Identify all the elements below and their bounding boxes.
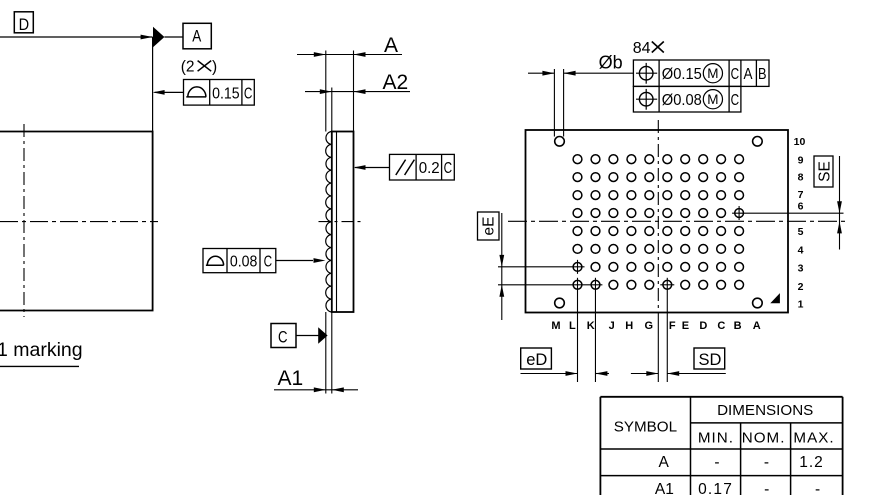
eE label box (rotated) <box>478 212 500 240</box>
svg-text:C: C <box>731 92 740 109</box>
SE label box (rotated) <box>814 156 833 187</box>
extension line (body right) <box>353 51 355 132</box>
svg-text:0.15: 0.15 <box>212 85 240 102</box>
modifier M circle row1 <box>703 64 722 83</box>
feature control frame: profile 0.08 C <box>203 249 276 273</box>
vertical centerline <box>23 124 25 317</box>
SE dimension line <box>839 156 841 250</box>
svg-text:84: 84 <box>633 40 651 57</box>
package outline (plan view, cropped) <box>0 132 153 311</box>
eD label box <box>521 348 552 369</box>
svg-text:SYMBOL: SYMBOL <box>614 418 677 435</box>
ball grid rows 2-9 cols B-L <box>573 155 743 289</box>
svg-text:Øb: Øb <box>599 53 623 73</box>
svg-text:E: E <box>682 320 689 332</box>
svg-text:0.08: 0.08 <box>230 253 258 270</box>
svg-text:DIMENSIONS: DIMENSIONS <box>717 402 813 419</box>
svg-text:H: H <box>625 320 633 332</box>
parallelism symbol // <box>396 160 406 175</box>
svg-text:G: G <box>645 320 654 332</box>
svg-text:): ) <box>212 58 217 75</box>
svg-text:1 marking: 1 marking <box>0 339 83 361</box>
dimension A2 line <box>305 91 410 93</box>
modifier M circle row2 <box>703 90 722 109</box>
solder balls (side profile scallops) <box>326 132 332 313</box>
svg-text:3: 3 <box>798 263 804 275</box>
svg-text:A2: A2 <box>383 71 409 94</box>
ball diameter extension lines <box>553 69 555 137</box>
svg-text:9: 9 <box>798 154 804 166</box>
connector to datum A box <box>164 36 183 38</box>
leader from ball B6 to SE dimension <box>732 212 843 214</box>
leader line from D to datum A edge <box>0 36 153 38</box>
profile-of-surface symbol <box>206 264 224 266</box>
eE dimension line <box>501 213 503 320</box>
side view body <box>332 132 354 313</box>
svg-text:eE: eE <box>481 217 498 236</box>
svg-text:5: 5 <box>798 226 804 238</box>
svg-text:C: C <box>244 85 253 102</box>
datum box A <box>183 23 211 49</box>
svg-text:-: - <box>764 481 769 495</box>
FCF row2: position dia 0.08 M | C <box>633 86 741 112</box>
svg-text:D: D <box>19 15 30 34</box>
svg-text:Ø0.08: Ø0.08 <box>662 92 702 109</box>
eD dimension line <box>521 373 578 375</box>
position symbol row1 <box>639 66 653 80</box>
svg-text:K: K <box>587 320 595 332</box>
leader arrow to ball tips line <box>276 260 313 262</box>
svg-text:C: C <box>264 253 273 270</box>
corner ball M10 <box>555 137 565 147</box>
leader to datum triangle C <box>296 335 319 337</box>
datum A feature edge line <box>152 37 154 132</box>
column letter labels <box>551 320 760 332</box>
svg-text:C: C <box>278 328 288 347</box>
vertical centerline <box>657 120 659 313</box>
svg-text:SD: SD <box>699 351 722 369</box>
svg-text:M: M <box>707 92 718 107</box>
svg-text:7: 7 <box>798 189 804 201</box>
svg-text:MIN.: MIN. <box>698 430 734 447</box>
feature control frame: profile 0.15 C <box>184 80 255 106</box>
datum box D <box>14 12 33 33</box>
svg-text:(2: (2 <box>181 58 195 75</box>
corner ball A1 <box>753 298 763 308</box>
svg-text:4: 4 <box>798 245 804 257</box>
horizontal centerline <box>508 220 845 222</box>
corner ball M1 <box>555 298 565 308</box>
extension line below ball K2 <box>594 278 596 382</box>
SD dimension line <box>631 373 658 375</box>
svg-text:A: A <box>753 320 761 332</box>
svg-text:A: A <box>659 454 670 471</box>
dimension line right part / leader to FCF <box>564 72 634 74</box>
dimension A line <box>297 54 402 56</box>
svg-text:A: A <box>192 27 202 46</box>
svg-text:SE: SE <box>816 161 833 182</box>
svg-text:M: M <box>551 320 560 332</box>
feature control frame: parallelism 0.2 C <box>390 154 455 180</box>
datum feature triangle A (filled) <box>153 27 164 47</box>
svg-text:-: - <box>815 481 820 495</box>
profile-of-surface symbol <box>186 96 206 98</box>
index ball target crosses <box>577 260 579 274</box>
svg-text:8: 8 <box>798 171 804 183</box>
svg-text:C: C <box>444 160 453 177</box>
svg-text:L: L <box>569 320 576 332</box>
svg-text:C: C <box>717 320 725 332</box>
mold cap line <box>336 132 338 313</box>
svg-text:D: D <box>699 320 707 332</box>
svg-text:10: 10 <box>794 136 806 148</box>
svg-text:B: B <box>734 320 742 332</box>
svg-text:2: 2 <box>798 281 804 293</box>
svg-text:J: J <box>609 320 615 332</box>
FCF row1: position dia 0.15 M | C | A | B <box>633 60 769 86</box>
position symbol row2 <box>639 92 653 106</box>
dimensions table <box>600 396 842 398</box>
vertical centerline extension below <box>657 313 659 382</box>
svg-text:Ø0.15: Ø0.15 <box>662 66 702 83</box>
svg-text:F: F <box>669 320 676 332</box>
extension line (ball tips) <box>325 51 327 132</box>
svg-text:-: - <box>764 454 769 471</box>
side view centerline <box>319 221 362 223</box>
svg-text:MAX.: MAX. <box>793 430 834 447</box>
svg-text:NOM.: NOM. <box>742 430 786 447</box>
svg-text:0.2: 0.2 <box>419 160 440 177</box>
svg-text:0.17: 0.17 <box>698 481 733 495</box>
svg-text:6: 6 <box>798 201 804 213</box>
svg-text:A: A <box>744 66 754 83</box>
svg-text:A1: A1 <box>655 481 674 495</box>
svg-text:1: 1 <box>798 299 804 311</box>
extension line below ball L2 <box>577 278 579 382</box>
svg-text:B: B <box>758 66 767 83</box>
leader arrow from frame to datum edge <box>155 91 184 93</box>
svg-text:1.2: 1.2 <box>799 454 824 471</box>
F2 cross arms <box>660 284 674 286</box>
svg-text:-: - <box>714 454 719 471</box>
horizontal centerline <box>0 221 158 223</box>
leader row 2 (eD/eE) <box>498 284 602 286</box>
SD label box <box>694 348 725 369</box>
svg-text:A1: A1 <box>277 367 303 390</box>
package outline (bottom view) <box>526 130 789 313</box>
leader row 3 (eE) <box>498 266 585 268</box>
dimension line left part <box>528 72 554 74</box>
datum box C <box>271 324 296 348</box>
dimension A1 line <box>274 389 358 391</box>
svg-text:C: C <box>731 66 740 83</box>
svg-text:A: A <box>384 34 398 57</box>
extension line (body left) <box>331 88 333 132</box>
svg-text:eD: eD <box>526 351 547 369</box>
A1 corner index triangle (filled) <box>770 293 780 303</box>
datum feature triangle C (filled) <box>318 327 327 343</box>
corner ball A10 <box>753 137 763 147</box>
extension line below ball F2 <box>666 278 668 382</box>
leader arrow to body right edge <box>355 167 390 169</box>
extension lines below body <box>325 312 327 394</box>
svg-text:M: M <box>707 66 718 81</box>
row number labels <box>794 136 806 311</box>
underline <box>0 365 79 367</box>
